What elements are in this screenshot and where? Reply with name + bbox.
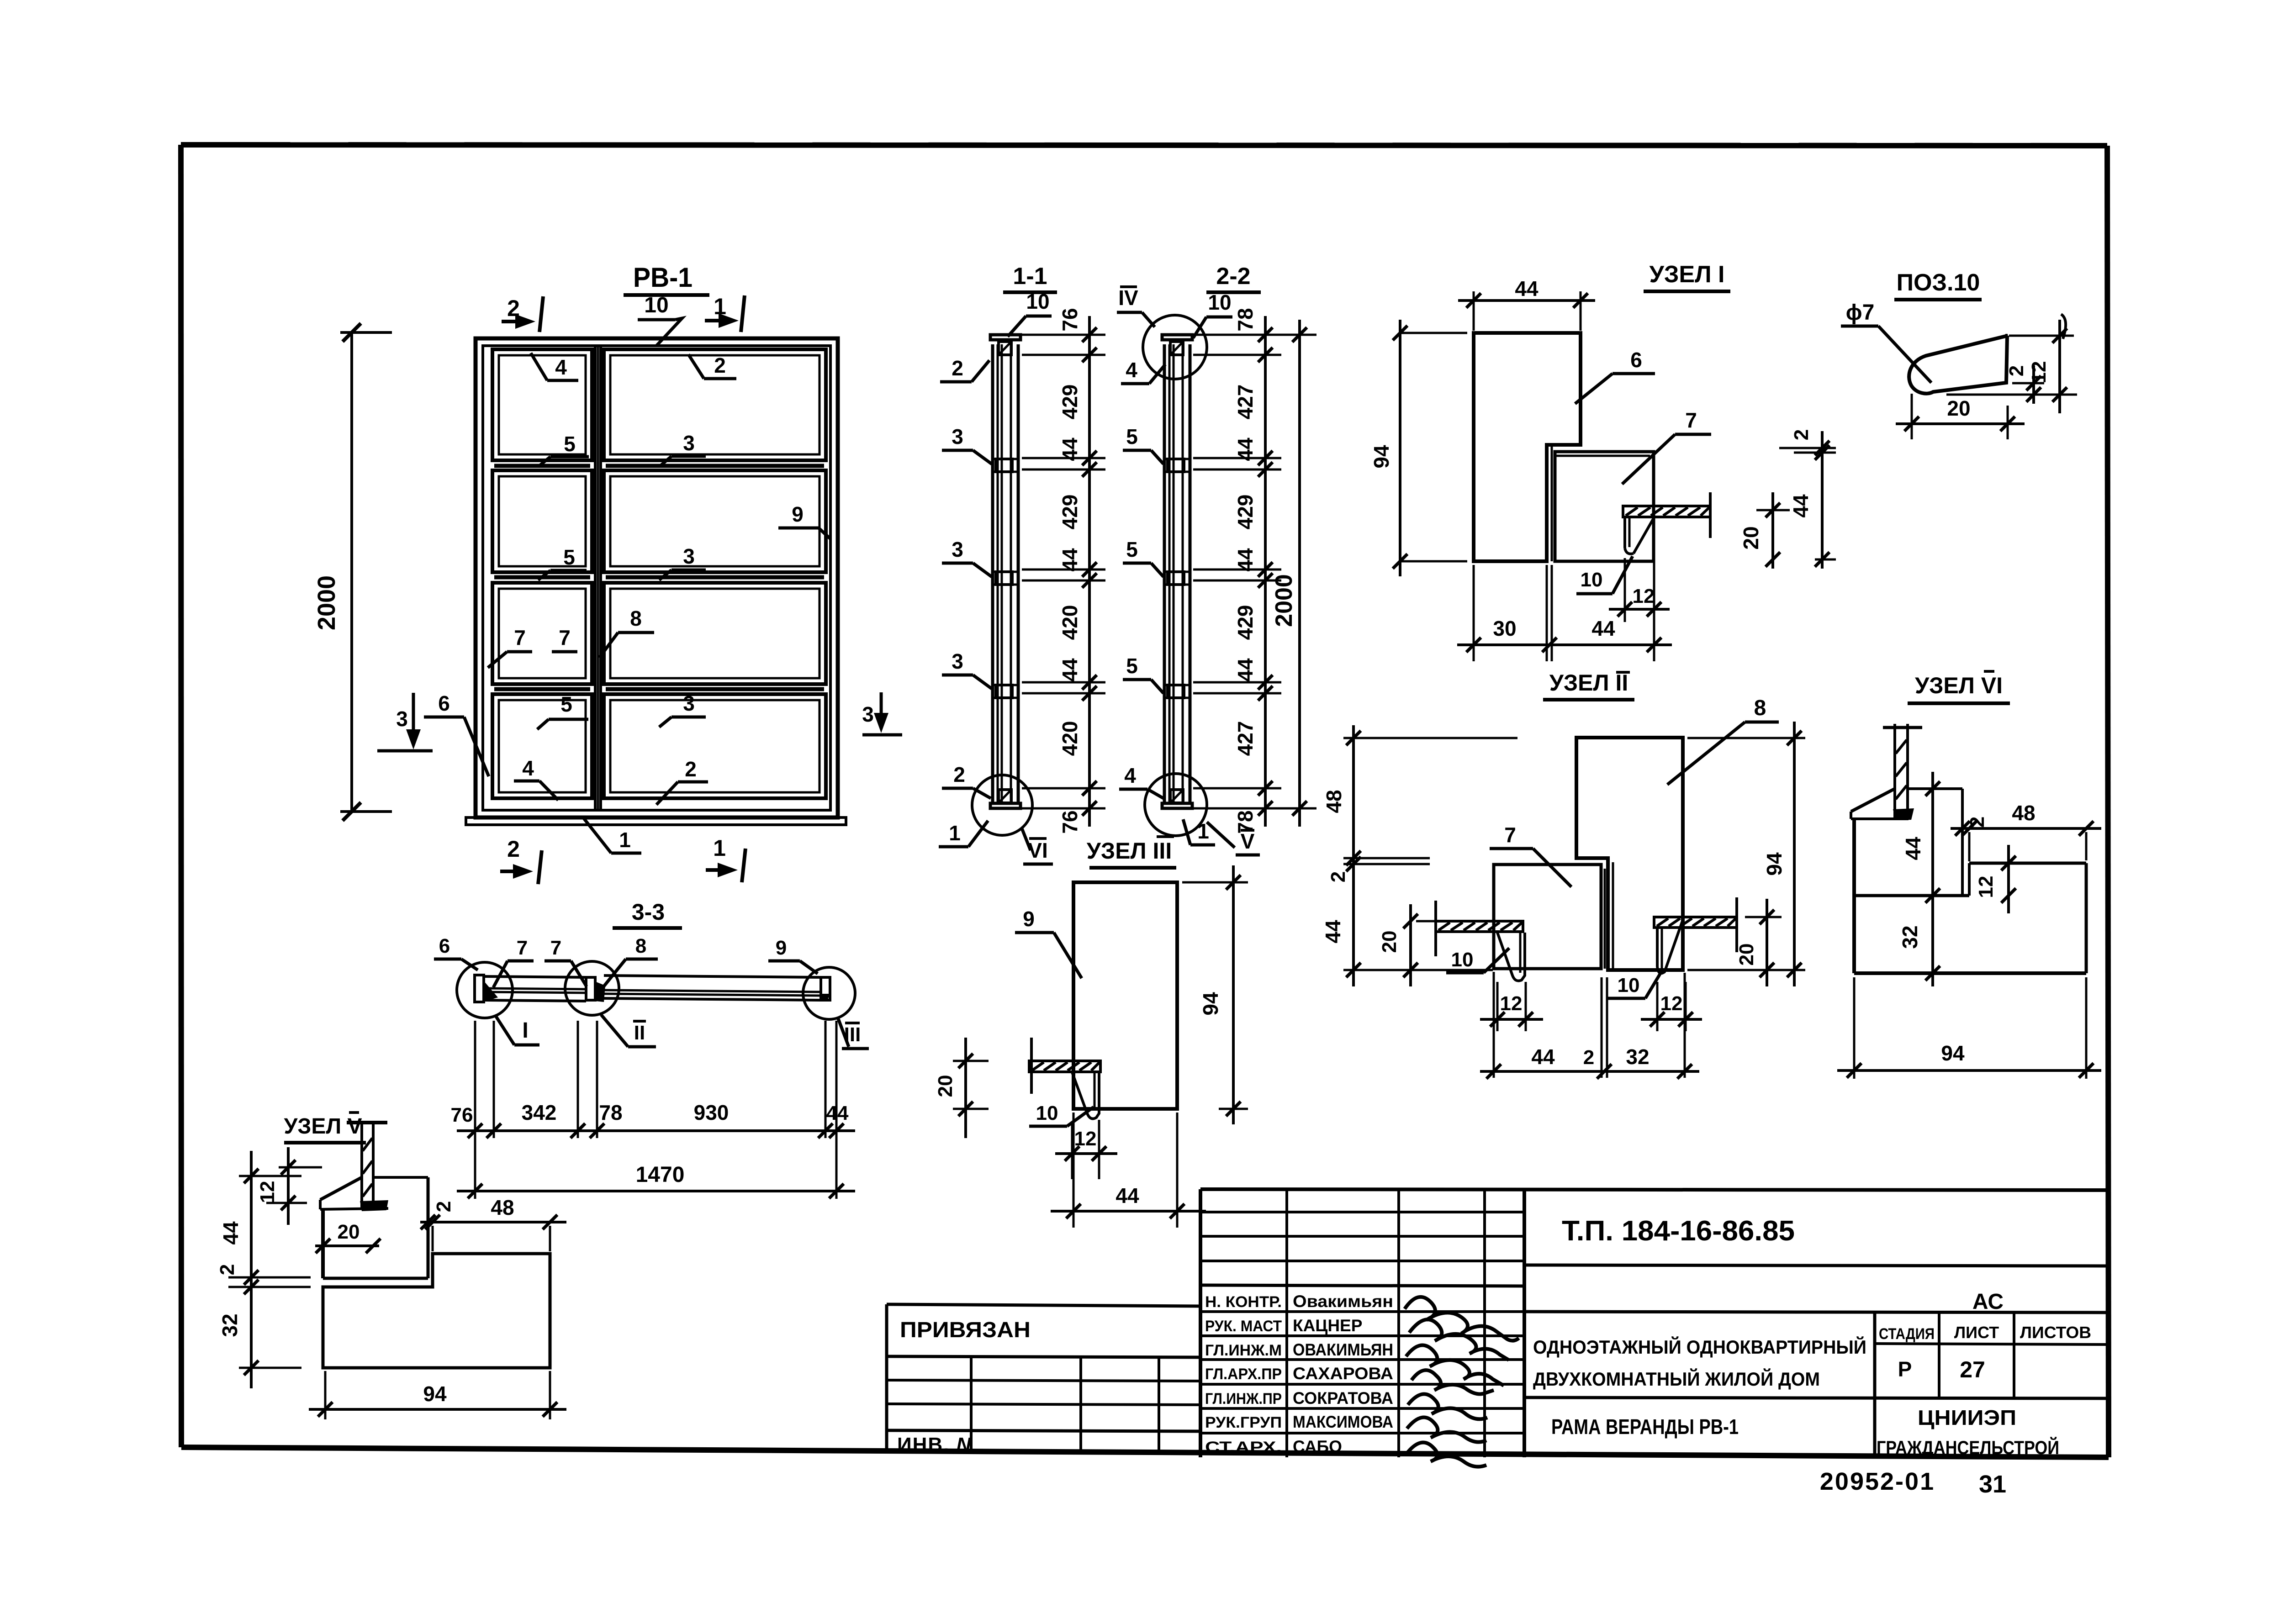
svg-text:8: 8 (1754, 696, 1766, 720)
left glazing bead item 10 (1497, 933, 1525, 981)
dim chain 1-1 (1088, 316, 1091, 827)
sash panel right (604, 349, 826, 460)
dim 1470 total (474, 1138, 476, 1199)
glazing board (hatched) (1029, 1061, 1100, 1072)
svg-text:УЗЕЛ V: УЗЕЛ V (284, 1114, 362, 1139)
svg-text:6: 6 (439, 935, 450, 957)
dim 94 bottom (324, 1371, 327, 1419)
svg-text:7: 7 (559, 626, 571, 649)
svg-text:10: 10 (1451, 949, 1474, 971)
svg-text:342: 342 (522, 1101, 557, 1124)
bottom sill strip (466, 817, 846, 825)
middle sash dark section (595, 982, 605, 1002)
dims 2 / 44 right (1779, 447, 1836, 449)
svg-text:5: 5 (564, 432, 576, 456)
signatures (cursive squiggles) (1405, 1297, 1519, 1341)
callout circle I (457, 962, 513, 1018)
svg-text:ϕ7: ϕ7 (1846, 301, 1875, 325)
stile and rail profile (1908, 787, 1962, 790)
svg-text:78: 78 (1233, 810, 1257, 833)
svg-text:7: 7 (1685, 408, 1697, 432)
svg-text:СТ.АРХ.: СТ.АРХ. (1205, 1439, 1282, 1456)
svg-text:32: 32 (1898, 925, 1922, 949)
svg-text:20: 20 (1378, 931, 1401, 953)
label 5 row1 (538, 432, 589, 467)
right glazing bead item 10 (1657, 920, 1683, 973)
section marker 2 (bottom) (500, 836, 542, 884)
svg-text:76: 76 (1058, 308, 1082, 331)
svg-text:САХАРОВА: САХАРОВА (1293, 1364, 1393, 1383)
svg-text:44: 44 (1901, 837, 1925, 860)
dim 94 left (1399, 320, 1401, 576)
svg-text:ГЛ.ИНЖ.М: ГЛ.ИНЖ.М (1205, 1342, 1282, 1359)
svg-text:7: 7 (514, 626, 526, 649)
svg-text:5: 5 (563, 545, 575, 569)
dim 12 (bead) (1624, 558, 1626, 622)
section 2-2 frame column (1163, 344, 1166, 803)
svg-text:2: 2 (216, 1264, 238, 1275)
dim 20 left (953, 1060, 989, 1062)
dim chain 2-2 (1264, 316, 1267, 827)
svg-text:420: 420 (1058, 721, 1082, 756)
dim 20 inside (348, 1229, 349, 1260)
dim 20 right (1745, 916, 1782, 918)
svg-text:10: 10 (1026, 290, 1049, 313)
svg-text:МАКСИМОВА: МАКСИМОВА (1293, 1413, 1393, 1431)
title РВ-1 (624, 262, 709, 295)
svg-text:4: 4 (1126, 358, 1137, 382)
svg-text:2000: 2000 (1271, 574, 1297, 627)
svg-text:44: 44 (1058, 658, 1082, 682)
svg-text:10: 10 (1036, 1102, 1058, 1124)
label 4 bottom-left (514, 756, 558, 800)
dim 12 left (279, 1166, 322, 1169)
svg-text:32: 32 (1626, 1045, 1649, 1069)
vertical glazing board (hatched) (360, 1122, 363, 1208)
label 3 row1 (659, 431, 706, 467)
svg-text:5: 5 (1126, 654, 1138, 678)
svg-text:II: II (634, 1022, 645, 1044)
svg-text:I: I (522, 1018, 528, 1043)
svg-text:ГЛ.ИНЖ.ПР: ГЛ.ИНЖ.ПР (1205, 1390, 1282, 1408)
svg-text:3: 3 (683, 691, 695, 715)
svg-text:9: 9 (792, 502, 804, 526)
sash panel left (492, 349, 592, 460)
svg-text:12: 12 (1074, 1128, 1097, 1150)
item 6 stile section (1474, 333, 1581, 561)
right stile section (821, 977, 830, 1000)
svg-text:78: 78 (599, 1101, 622, 1124)
callout circle II (565, 961, 619, 1015)
dim 94 right (1182, 881, 1248, 884)
svg-text:78: 78 (1233, 308, 1257, 331)
sloped cap (320, 1177, 362, 1200)
svg-text:3: 3 (952, 538, 963, 561)
label 9 right (778, 502, 830, 539)
svg-text:Овакимьян: Овакимьян (1293, 1292, 1393, 1311)
dim 94 right (1687, 737, 1805, 739)
svg-text:44: 44 (1058, 438, 1082, 461)
svg-text:ИНВ. N: ИНВ. N (897, 1434, 972, 1456)
label 5 row2 (538, 545, 587, 580)
svg-text:РУК.ГРУП: РУК.ГРУП (1205, 1414, 1282, 1431)
section 2-2 top rail (1162, 335, 1192, 340)
dims 48 / 2 / 44 left (1343, 737, 1517, 739)
label 5 row3 (537, 692, 588, 729)
rails between (484, 976, 586, 977)
section 1-1 bottom rail (990, 803, 1020, 808)
svg-text:2: 2 (507, 836, 520, 862)
node V callout circle (bottom of 2-2) (1145, 774, 1207, 836)
node VI callout circle (bottom of 1-1) (972, 775, 1032, 835)
svg-text:4: 4 (555, 355, 567, 379)
svg-text:3: 3 (396, 707, 408, 731)
svg-text:12: 12 (1975, 876, 1997, 898)
svg-text:ГЛ.АРХ.ПР: ГЛ.АРХ.ПР (1205, 1366, 1282, 1383)
item 8 mullion section (1576, 738, 1683, 970)
dims 44 / 2 / 32 bottom (1493, 972, 1495, 1078)
view marker 3 right (862, 692, 902, 735)
svg-text:429: 429 (1233, 495, 1257, 530)
sloped cap (1851, 789, 1895, 812)
dim 12 left bottom (1496, 982, 1499, 1031)
dim 2 / 48 top (1951, 827, 2101, 830)
svg-text:10: 10 (1208, 290, 1231, 314)
left glazing board (hatched) (1436, 921, 1523, 932)
svg-text:2: 2 (433, 1201, 455, 1212)
overall dim 2000 (1298, 320, 1301, 827)
section 2-2 rail section (1168, 685, 1184, 698)
svg-text:6: 6 (438, 691, 450, 715)
label 1 bottom (584, 818, 641, 853)
svg-text:3: 3 (862, 702, 874, 726)
svg-text:429: 429 (1058, 495, 1082, 530)
svg-text:1-1: 1-1 (1013, 263, 1047, 290)
svg-text:5: 5 (1126, 425, 1138, 448)
svg-text:20: 20 (1947, 396, 1970, 420)
glazing board (hatched) (1623, 506, 1710, 517)
dim 32 left (1931, 896, 1934, 986)
svg-text:12: 12 (2028, 361, 2050, 384)
svg-text:IV: IV (1118, 286, 1138, 310)
label 3 row2 (659, 544, 706, 580)
svg-text:429: 429 (1233, 605, 1257, 640)
svg-text:44: 44 (1515, 277, 1539, 301)
svg-text:СТАДИЯ: СТАДИЯ (1879, 1325, 1935, 1343)
svg-text:УЗЕЛ VI: УЗЕЛ VI (1915, 673, 2003, 698)
callout circle III (803, 967, 855, 1019)
svg-text:1: 1 (619, 828, 631, 852)
section 2-2 bottom rail (1162, 803, 1192, 808)
svg-text:ГРАЖДАНСЕЛЬСТРОЙ: ГРАЖДАНСЕЛЬСТРОЙ (1877, 1436, 2059, 1458)
svg-text:КАЦНЕР: КАЦНЕР (1293, 1316, 1362, 1335)
sash panel left (492, 694, 592, 798)
glazing bead (dark) (1893, 808, 1914, 820)
dim 44 bottom (1073, 1113, 1075, 1228)
svg-text:РУК. МАСТ: РУК. МАСТ (1205, 1318, 1282, 1335)
sash panel right (604, 470, 826, 572)
svg-text:7: 7 (550, 937, 561, 959)
sash panel left (492, 470, 592, 572)
dim 20 right (1756, 509, 1790, 511)
dim 20 left (1416, 920, 1434, 923)
glazing bead item 10 (1623, 517, 1626, 548)
svg-text:44: 44 (826, 1102, 849, 1124)
dims 30 / 44 bottom (1473, 565, 1475, 661)
svg-text:2: 2 (1966, 817, 1988, 828)
svg-text:ЦНИИЭП: ЦНИИЭП (1918, 1406, 2016, 1429)
svg-text:1: 1 (713, 835, 726, 861)
svg-text:48: 48 (1322, 790, 1346, 813)
svg-text:3: 3 (683, 431, 695, 455)
svg-text:2: 2 (952, 356, 963, 380)
svg-text:44: 44 (1531, 1045, 1555, 1069)
sash panel right (604, 583, 826, 684)
svg-text:7: 7 (1504, 823, 1516, 847)
svg-text:ОДНОЭТАЖНЫЙ ОДНОКВАРТИРНЫЙ: ОДНОЭТАЖНЫЙ ОДНОКВАРТИРНЫЙ (1533, 1336, 1866, 1358)
svg-text:20952-01: 20952-01 (1820, 1468, 1935, 1495)
svg-text:12: 12 (1660, 992, 1683, 1015)
left sash dark section (484, 981, 498, 1002)
svg-text:20: 20 (338, 1221, 360, 1243)
label 8 mullion (599, 606, 654, 658)
svg-text:2: 2 (685, 757, 697, 781)
item 9 stile section (1073, 882, 1177, 1109)
svg-text:2000: 2000 (313, 575, 340, 630)
section marker 1 (bottom) (706, 835, 745, 882)
sheet border frame (181, 145, 2109, 1457)
label 3 row3 (659, 691, 706, 727)
frame inner line (483, 346, 830, 810)
section 1-1 rail section (996, 459, 1012, 472)
svg-text:3: 3 (952, 425, 963, 448)
svg-text:94: 94 (1199, 992, 1222, 1016)
svg-text:420: 420 (1058, 605, 1082, 640)
svg-text:ЛИСТОВ: ЛИСТОВ (2020, 1323, 2091, 1342)
svg-text:44: 44 (1321, 920, 1345, 944)
board 9 (604, 975, 821, 977)
svg-text:Р: Р (1898, 1357, 1912, 1381)
dims 44 / 2 / 32 left (239, 1175, 301, 1177)
dim 2 right (2012, 382, 2044, 385)
stile section (373, 1176, 428, 1179)
section 2-2 rail section (1168, 572, 1184, 585)
svg-text:27: 27 (1960, 1357, 1985, 1382)
svg-text:2: 2 (1327, 871, 1349, 882)
svg-text:2: 2 (714, 353, 726, 377)
central mullion (594, 346, 597, 810)
svg-text:427: 427 (1233, 721, 1257, 756)
svg-text:5: 5 (1126, 538, 1138, 561)
svg-text:20: 20 (934, 1075, 957, 1097)
svg-text:44: 44 (1058, 548, 1082, 572)
middle mullion section (586, 977, 595, 1000)
left stile section (475, 975, 484, 1002)
svg-text:УЗЕЛ I: УЗЕЛ I (1650, 261, 1725, 288)
svg-text:1: 1 (949, 821, 961, 845)
svg-text:94: 94 (1369, 445, 1393, 469)
svg-text:3-3: 3-3 (632, 899, 665, 925)
svg-text:VI: VI (1028, 838, 1047, 862)
svg-text:3: 3 (952, 649, 963, 673)
svg-text:4: 4 (1124, 764, 1136, 787)
node IV callout circle (top of 2-2) (1143, 315, 1207, 379)
svg-text:4: 4 (522, 756, 534, 780)
svg-text:429: 429 (1058, 385, 1082, 420)
dim chain 76/342/78/930/44 (474, 1021, 476, 1138)
svg-text:Т.П. 184-16-86.85: Т.П. 184-16-86.85 (1562, 1215, 1795, 1247)
section 2-2 rail section (1168, 459, 1184, 472)
svg-text:44: 44 (1233, 548, 1257, 572)
svg-text:6: 6 (1630, 348, 1642, 372)
section 1-1 rail section (996, 685, 1012, 698)
dim 12 bottom (1071, 1124, 1073, 1179)
elevation rail darkening (494, 464, 590, 468)
svg-text:10: 10 (1618, 974, 1640, 997)
svg-text:9: 9 (776, 937, 787, 959)
svg-text:УЗЕЛ II: УЗЕЛ II (1549, 670, 1628, 696)
svg-text:7: 7 (517, 937, 528, 959)
label 2 bottom-right (656, 757, 708, 805)
svg-text:САБО: САБО (1293, 1437, 1342, 1456)
svg-text:8: 8 (630, 606, 642, 630)
svg-text:АС: АС (1972, 1290, 2004, 1314)
section 1-1 rail section (996, 572, 1012, 585)
svg-text:2: 2 (1790, 429, 1813, 440)
label 4 top-left (531, 353, 578, 380)
glazing bead item 10 (1072, 1072, 1099, 1119)
labels 7 7 (488, 626, 577, 668)
svg-text:1470: 1470 (636, 1163, 685, 1187)
svg-text:32: 32 (218, 1313, 242, 1337)
label 10 with leader to frame top (638, 293, 682, 346)
svg-text:20: 20 (1739, 526, 1763, 549)
svg-text:44: 44 (1233, 658, 1257, 682)
item 7 sash section (1555, 452, 1654, 561)
svg-text:12: 12 (1633, 585, 1655, 607)
sash panel left (492, 583, 592, 684)
svg-text:31: 31 (1979, 1471, 2006, 1498)
dim 94 bottom (1853, 977, 1856, 1079)
svg-text:10: 10 (644, 293, 668, 317)
dim 44 left (1931, 772, 1934, 909)
svg-text:20: 20 (1735, 944, 1758, 966)
svg-text:44: 44 (1591, 617, 1615, 640)
item 7 sash section (1494, 865, 1601, 969)
svg-text:8: 8 (635, 935, 646, 957)
svg-text:ПРИВЯЗАН: ПРИВЯЗАН (900, 1318, 1031, 1342)
dim 2000 left (313, 323, 392, 821)
svg-text:94: 94 (1762, 852, 1786, 876)
label 2 top-right (688, 353, 736, 379)
section 1-1 top rail (990, 335, 1020, 340)
svg-text:76: 76 (451, 1104, 473, 1126)
svg-text:930: 930 (694, 1101, 729, 1124)
svg-text:Н. КОНТР.: Н. КОНТР. (1205, 1293, 1282, 1311)
svg-text:44: 44 (219, 1221, 243, 1245)
svg-text:94: 94 (423, 1382, 447, 1406)
svg-text:РАМА ВЕРАНДЫ РВ-1: РАМА ВЕРАНДЫ РВ-1 (1551, 1415, 1739, 1439)
svg-text:10: 10 (1581, 569, 1603, 591)
svg-text:ЛИСТ: ЛИСТ (1954, 1323, 1999, 1342)
svg-text:48: 48 (491, 1196, 514, 1219)
dim 12 right (2009, 335, 2074, 337)
svg-text:СОКРАТОВА: СОКРАТОВА (1293, 1389, 1393, 1408)
svg-text:2: 2 (1583, 1046, 1594, 1069)
svg-text:5: 5 (560, 692, 572, 716)
sash panel right (604, 694, 826, 798)
svg-text:76: 76 (1058, 810, 1082, 833)
bottom rail section (323, 1254, 550, 1368)
svg-text:94: 94 (1941, 1041, 1965, 1065)
svg-text:РВ-1: РВ-1 (633, 262, 693, 293)
svg-text:3: 3 (683, 544, 695, 568)
svg-text:44: 44 (1116, 1184, 1139, 1207)
view marker 3 left (377, 693, 433, 751)
frame outer rect (476, 338, 838, 817)
svg-text:ПОЗ.10: ПОЗ.10 (1897, 269, 1980, 296)
dim 2 / 48 top right (420, 1221, 566, 1223)
vertical glazing board (hatched) (1893, 724, 1896, 817)
glazing bead (dark) (360, 1200, 388, 1211)
label 6 left (424, 691, 489, 776)
svg-text:427: 427 (1233, 385, 1257, 420)
svg-text:2: 2 (953, 763, 965, 786)
section marker 2 (top) (502, 295, 543, 332)
dim 12 right bottom (1656, 982, 1659, 1031)
svg-text:30: 30 (1493, 617, 1516, 640)
svg-text:48: 48 (2012, 801, 2035, 825)
svg-text:9: 9 (1023, 907, 1035, 931)
section marker 1 (top) (705, 294, 745, 332)
bead profile (1909, 336, 2008, 394)
svg-text:2: 2 (2005, 365, 2028, 376)
section 1-1 frame column (991, 344, 994, 803)
svg-text:ОВАКИМЬЯН: ОВАКИМЬЯН (1293, 1340, 1393, 1359)
svg-text:ДВУХКОМНАТНЫЙ ЖИЛОЙ ДОМ: ДВУХКОМНАТНЫЙ ЖИЛОЙ ДОМ (1533, 1368, 1820, 1390)
dim 12 (2007, 845, 2010, 913)
dim 44 top (1473, 291, 1475, 331)
svg-text:2-2: 2-2 (1216, 263, 1250, 290)
right glazing board (hatched) (1654, 917, 1737, 928)
svg-text:12: 12 (1500, 992, 1523, 1015)
svg-text:12: 12 (256, 1181, 279, 1203)
svg-text:УЗЕЛ III: УЗЕЛ III (1087, 838, 1172, 864)
svg-text:44: 44 (1789, 494, 1813, 518)
dim 20 bottom (1911, 394, 1913, 439)
svg-text:44: 44 (1233, 438, 1257, 461)
